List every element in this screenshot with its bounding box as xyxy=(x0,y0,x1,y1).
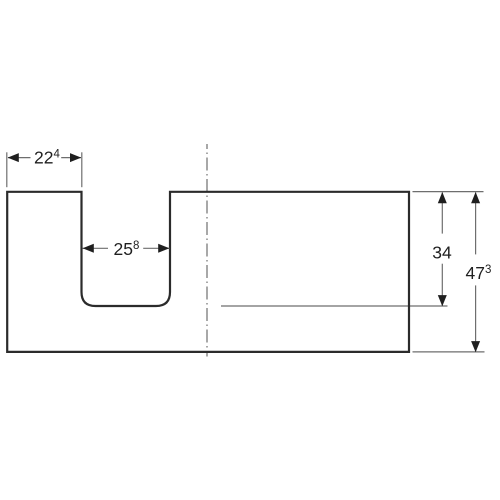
countertop outline with U-shaped cutout xyxy=(7,192,409,352)
dimension 34: top arrowhead xyxy=(438,192,447,203)
dimension 34: label background xyxy=(431,234,454,264)
dimension 47-3: label background xyxy=(464,254,493,285)
dimension 47-3: dimension line xyxy=(475,193,477,352)
dimension 47-3: bottom arrowhead xyxy=(471,341,480,352)
extension line: top edge extended right xyxy=(413,191,484,193)
interior depth line at y=306 xyxy=(221,305,448,307)
svg-text:34: 34 xyxy=(432,242,452,262)
dimension 34: dimension line xyxy=(441,193,443,306)
dimension 25-8: dimension line xyxy=(83,247,170,249)
dimension 47-3: top arrowhead xyxy=(471,192,480,203)
dimension 25-8: left arrowhead xyxy=(83,244,94,253)
dimension 25-8: label background xyxy=(108,239,143,257)
dimension 22-4: extension line left xyxy=(6,152,8,187)
centerline (vertical dash-dot axis) xyxy=(206,144,208,357)
dimension 25-8: right arrowhead xyxy=(158,244,169,253)
extension line: bottom edge extended right xyxy=(413,351,485,353)
dimension 22-4: left arrowhead xyxy=(8,153,19,162)
dimension 22-4: right arrowhead xyxy=(70,153,81,162)
dimension 34: bottom arrowhead xyxy=(438,295,447,306)
dimension 22-4: dimension line xyxy=(8,157,81,159)
dimension 22-4: label background xyxy=(31,148,62,165)
dimension 22-4: extension line right xyxy=(81,152,83,187)
